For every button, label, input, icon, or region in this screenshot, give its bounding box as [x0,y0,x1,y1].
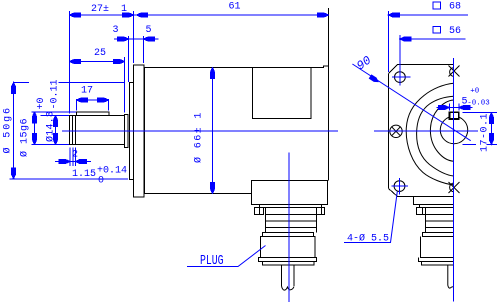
svg-text:56: 56 [449,26,461,37]
dim 25 extension line right [124,57,126,113]
plug bottom cap (front view) [422,261,454,265]
svg-text:5: 5 [146,25,152,36]
dim 3/5 extension lines [129,36,144,82]
dim 27+-1 line [70,13,134,17]
shaft (side view) [70,112,125,145]
screw hole top-left (front view) [395,72,406,83]
pilot circle D50 (front view, half ellipse) [417,96,454,176]
screw hole top-right with cross (front view) [449,66,460,77]
body circle D66 (front view, half ellipse) [406,83,453,185]
svg-text:2: 2 [72,150,78,161]
dim 2 / 1.15 extension lines [70,148,75,167]
vertical centerline (front view) [453,58,455,302]
svg-text:68: 68 [449,2,461,13]
svg-text:-0.11: -0.11 [50,79,61,109]
dim 3 and 5 line with outside arrows [114,37,159,41]
inner circle (front view, half ellipse) [430,100,453,161]
flange plate (front/right view, half) [389,65,454,197]
svg-text:25: 25 [94,48,106,59]
dim 27+-1 extension line left [69,11,71,114]
dim 5 keyway extension ticks [449,104,459,111]
svg-text:1: 1 [121,4,127,15]
shaft collar (side view) [125,115,129,148]
mounting flange (side view) [134,65,145,197]
horizontal centerline (side view) [62,130,338,132]
svg-text:3: 3 [113,25,119,36]
leader 4-D5.5 [344,192,397,243]
plug pin (side view) [282,265,295,290]
dim 17-0.1 extension ticks [463,113,497,145]
plug second plate (front view) [420,205,454,208]
svg-text:+0: +0 [470,88,480,96]
dim 25 line [70,60,125,64]
dim 90 leader with arrow [352,64,470,141]
cross marks hole top-left [392,35,410,85]
side hole with cross on flange left edge (front view) [390,125,402,137]
svg-text:0: 0 [98,176,104,187]
shaft circle D15 (front view) [440,116,467,143]
svg-text:Ø 66± 1: Ø 66± 1 [193,111,205,163]
plug base box (front view) [414,197,454,205]
leader PLUG [187,246,266,267]
plug barrel (side view) [261,237,316,258]
dim D50g6 line [12,82,16,178]
plug right ear (side view) [317,208,325,215]
dim 2 / 1.15 line with outside arrows [55,160,91,164]
svg-text:Ø 50g6: Ø 50g6 [2,106,14,153]
plug left ear (side view) [255,208,264,215]
cross marks hole bottom-left [392,178,409,195]
dim sq68 line [388,13,468,17]
plug barrel (front view) [421,237,454,258]
dim D14.3 line [54,116,58,145]
dim D50g6 extension lines [10,82,129,178]
dim 27/61 extension line middle [133,11,135,63]
svg-text:1.15: 1.15 [72,169,96,180]
svg-text:27±: 27± [91,4,109,15]
dim 17 extension lines [77,99,109,111]
keyway square (front view) [450,112,459,119]
plug ribbed collar (side view) [266,208,317,233]
plug ear (front view) [417,208,426,215]
plug bottom cap (side view) [263,261,315,265]
screw hole bottom-right with cross (front view) [449,182,460,193]
plug bottom ring (front view) [419,258,454,262]
square symbol for 56 [433,26,441,33]
svg-text:17-0.1: 17-0.1 [480,113,491,152]
body outline (side view) [145,8,329,194]
square symbol for 68 [433,2,441,9]
horizontal centerline (front view) [374,130,478,132]
dim 5 keyway line with outside arrows [437,106,473,110]
dim 61 line [134,13,329,17]
svg-text:4-Ø 5.5: 4-Ø 5.5 [347,233,389,245]
plug upper band (front view) [423,233,454,237]
dim D15g6/D14.3 extension lines [32,112,77,145]
svg-text:-0.03: -0.03 [467,100,490,108]
screw hole bottom-left (front view) [394,181,405,192]
svg-text:Ø14.3: Ø14.3 [45,111,57,142]
plug second plate (side view) [260,205,322,208]
plug upper band (side view) [263,233,314,237]
dim D15g6 line [33,112,37,145]
svg-text:PLUG: PLUG [200,254,224,269]
svg-text:Ø 15g6: Ø 15g6 [19,118,31,157]
pilot ring D50 (side view) [130,83,134,180]
dim 17-0.1 line [489,113,493,145]
dim sq56 line [400,37,466,41]
dim 17 line [77,98,109,102]
plug centerline (side view) [288,153,290,303]
connector cutout rectangle on body top (side view) [253,68,312,119]
svg-text:+0: +0 [36,97,47,109]
plug ribbed collar (front view) [426,208,454,233]
svg-text:17: 17 [81,86,93,97]
svg-text:61: 61 [229,2,241,13]
plug bottom ring (side view) [259,258,317,262]
dim D66+-1 line [211,68,215,194]
plug pin (front view) [448,265,454,288]
dim sq68 extension line [387,11,389,72]
plug base box (side view) [252,181,328,205]
